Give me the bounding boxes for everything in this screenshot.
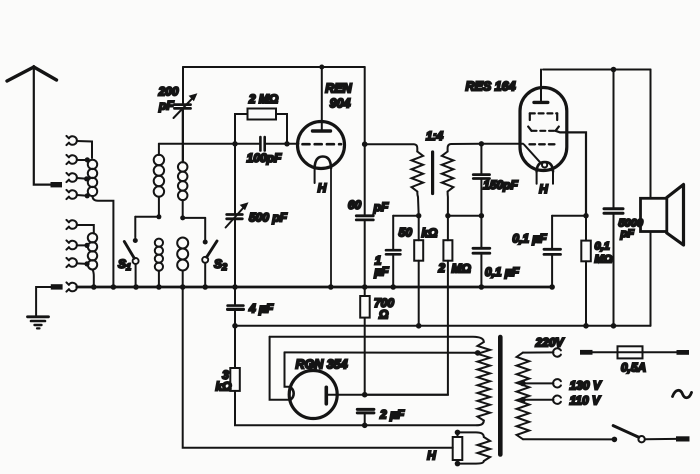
RES 164 top wire	[543, 69, 651, 71]
grid leak 2MOhm	[235, 109, 287, 144]
svg-text:REN: REN	[325, 82, 352, 96]
RES 164 anode	[534, 70, 548, 103]
RGN 354 cathode	[291, 387, 294, 399]
antenna tap contacts (lower)	[66, 220, 76, 292]
mains switch	[523, 426, 676, 443]
tuning capacitor 500pF	[226, 144, 249, 287]
svg-text:pF: pF	[373, 200, 389, 214]
svg-text:H: H	[539, 182, 548, 196]
reaction coil L3	[177, 110, 188, 287]
svg-text:RGN 354: RGN 354	[295, 358, 347, 372]
ground symbol	[28, 317, 49, 329]
switch S2	[183, 218, 217, 287]
L3 tap dot	[180, 215, 185, 220]
svg-text:904: 904	[330, 97, 351, 111]
svg-text:2 µF: 2 µF	[379, 408, 405, 422]
svg-text:110 V: 110 V	[570, 394, 601, 408]
RES 164 control grid	[481, 143, 523, 145]
triode REN 904	[298, 122, 345, 169]
fuse 0.5A	[580, 346, 689, 358]
resistor 3 kOhm	[230, 326, 477, 426]
svg-text:kΩ: kΩ	[422, 226, 439, 240]
capacitor 0.1uF (right)	[544, 216, 586, 287]
RGN 354 filament wires	[270, 337, 291, 400]
resistor 0.1 MOhm	[581, 216, 591, 326]
svg-text:2 MΩ: 2 MΩ	[248, 92, 279, 106]
capacitor 150pF	[473, 144, 489, 216]
main ground bus wire	[77, 286, 552, 289]
svg-text:130 V: 130 V	[570, 379, 602, 393]
svg-text:H: H	[427, 449, 436, 463]
svg-text:2: 2	[437, 261, 445, 275]
AF transformer 1:4 secondary	[442, 152, 454, 192]
RES 164 grid 2 (dashed, to right)	[528, 127, 586, 216]
mains primary winding	[517, 353, 530, 440]
svg-text:4 µF: 4 µF	[248, 302, 274, 316]
svg-text:0,1 µF: 0,1 µF	[512, 232, 547, 246]
line C (to HV winding top)	[270, 337, 484, 342]
svg-text:60: 60	[348, 198, 362, 212]
svg-text:S1: S1	[118, 257, 131, 272]
antenna plug	[51, 182, 63, 187]
svg-text:µF: µF	[373, 265, 389, 279]
svg-text:200: 200	[157, 85, 178, 99]
svg-text:pF: pF	[620, 228, 635, 240]
capacitor 2uF	[357, 409, 374, 413]
svg-text:100pF: 100pF	[247, 151, 282, 165]
power transformer HV secondary	[478, 342, 491, 421]
svg-text:0,5A: 0,5A	[621, 361, 646, 375]
svg-text:0,1 µF: 0,1 µF	[485, 265, 520, 279]
svg-text:MΩ: MΩ	[452, 262, 472, 276]
RGN 354 anode	[326, 387, 448, 404]
capacitor 0.1uF (left)	[473, 216, 490, 287]
tap dots coil A1	[84, 157, 90, 198]
anode feed vertical wire	[364, 67, 366, 395]
svg-text:S2: S2	[214, 257, 227, 272]
rectifier RGN 354	[289, 371, 337, 419]
REN 904 anode	[313, 67, 331, 131]
capacitor 1uF	[386, 216, 419, 287]
svg-text:pF: pF	[158, 99, 174, 113]
AF transformer 1:4 primary	[412, 152, 424, 192]
aerial coil A2	[88, 233, 97, 287]
loudspeaker	[641, 70, 684, 326]
ground plug and wire	[51, 284, 63, 289]
capacitor 5000pF	[604, 70, 623, 326]
L2 tap dot	[156, 214, 161, 219]
wires from contacts to coil taps	[77, 141, 92, 196]
capacitor 60pF	[356, 216, 373, 220]
grid condenser 100pF	[260, 137, 264, 151]
RES 164 screen grid	[530, 113, 557, 120]
power transformer core	[498, 337, 503, 455]
svg-text:H: H	[318, 181, 327, 195]
variable capacitor 200pF	[174, 67, 198, 162]
capacitor 4uF	[228, 287, 244, 326]
svg-text:RES 164: RES 164	[465, 80, 515, 94]
top anode wire	[183, 66, 365, 68]
antenna	[7, 66, 57, 185]
grid wire	[159, 143, 299, 145]
svg-text:Ω: Ω	[378, 308, 389, 322]
junction dots	[416, 141, 484, 218]
wires from lower contacts	[77, 225, 94, 264]
svg-text:MΩ: MΩ	[595, 254, 613, 266]
REN 904 grid (dashed)	[303, 143, 342, 146]
svg-text:220V: 220V	[534, 336, 564, 350]
grid coil L2	[154, 144, 164, 287]
heater wire from bus	[183, 287, 453, 448]
130V tap	[523, 379, 561, 387]
resistor 50 kOhm	[414, 216, 423, 326]
svg-text:0,1: 0,1	[595, 241, 610, 253]
svg-text:50: 50	[399, 226, 413, 240]
wire to AF transformer primary	[365, 144, 418, 151]
line D (to HV winding tap)	[285, 351, 478, 353]
bus junction dots	[91, 284, 555, 290]
aerial coil A1	[88, 160, 114, 287]
svg-text:kΩ: kΩ	[215, 380, 232, 394]
resistor 700 Ohm	[360, 296, 370, 318]
switch S1	[124, 217, 159, 287]
resistor 2 MOhm (grid leak RES164)	[366, 216, 452, 395]
AC symbol	[673, 390, 692, 397]
RES 164 cathode	[537, 162, 553, 184]
tap dots coil A2	[84, 243, 89, 267]
svg-text:500 pF: 500 pF	[249, 211, 288, 225]
antenna tap contacts (upper)	[66, 136, 76, 199]
svg-text:1:4: 1:4	[426, 129, 444, 143]
220V tap	[523, 348, 561, 356]
110V tap	[523, 396, 561, 404]
rectifier filament winding	[478, 437, 491, 461]
output tetrode RES 164	[520, 87, 567, 170]
REN 904 cathode	[315, 157, 331, 288]
HT line	[235, 325, 651, 327]
AF transformer core	[431, 152, 434, 194]
humdinger resistor H	[453, 432, 463, 463]
svg-text:150pF: 150pF	[483, 178, 518, 192]
